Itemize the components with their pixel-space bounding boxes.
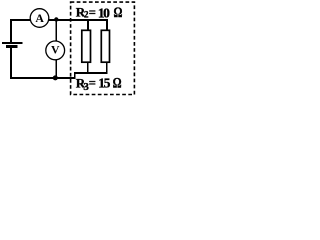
wire left vertical battery bottom lead [10,48,12,79]
svg-text:Ω: Ω [114,3,123,20]
svg-text:=: = [89,76,96,90]
svg-text:15: 15 [98,76,110,91]
wire riser up into box [74,73,76,80]
svg-text:A: A [35,11,44,25]
junction node top [54,17,58,21]
svg-text:=: = [89,5,96,19]
battery B1 short thick plate [6,45,18,48]
wire voltmeter top branch [55,19,57,41]
wire bottom horizontal from battery to riser [10,77,76,79]
wire R2 bottom lead [87,63,89,73]
wire R3 top lead (corner drop) [106,20,108,31]
wire top-left horizontal from battery to ammeter [10,19,30,21]
voltmeter V [46,41,65,60]
wire left vertical battery top lead [10,19,12,42]
svg-text:V: V [51,43,60,57]
battery B1 long plate [2,42,23,44]
svg-text:10: 10 [98,5,110,20]
junction node bottom [53,75,58,80]
svg-text:Ω: Ω [113,74,122,91]
label R3=15 ohm [76,74,122,93]
wire bottom bar connecting resistor bottoms [74,72,108,74]
wire R2 top lead [87,21,89,31]
label R2=10 ohm [76,3,123,20]
ammeter A [30,9,49,28]
dashed box around R2 and R3 [71,2,135,94]
wire top horizontal from ammeter to resistor-box corner [49,19,108,21]
resistor R2 body [82,30,91,62]
wire R3 bottom lead [106,63,108,73]
wire voltmeter bottom branch [55,60,57,78]
resistor R3 body [101,30,109,62]
